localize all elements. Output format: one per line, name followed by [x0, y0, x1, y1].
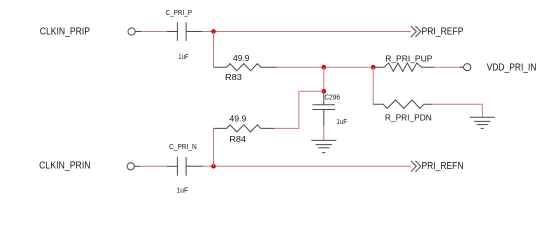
wire CLKIN_PRIN terminal to C_PRI_N	[140, 165, 167, 167]
wire C296 to ground	[323, 126, 325, 140]
capacitor C_PRI_N	[167, 157, 203, 176]
svg-text:R_PRI_PDN: R_PRI_PDN	[385, 112, 432, 122]
wire R_PRI_PUP branch down to R_PRI_PDN	[372, 67, 374, 104]
wire C_PRI_P to PRI_REFP	[203, 31, 411, 33]
junction node at x324 top	[322, 65, 327, 70]
terminal (port) for CLKIN_PRIN	[127, 163, 140, 170]
wire C_PRI_N to PRI_REFN	[203, 165, 411, 167]
svg-text:1uF: 1uF	[177, 186, 189, 195]
svg-text:PRI_REFP: PRI_REFP	[422, 26, 464, 37]
ground right	[470, 117, 495, 128]
wire down to R84	[298, 91, 300, 129]
wire R83 to R_PRI_PUP	[277, 66, 373, 68]
capacitor C296	[313, 91, 335, 126]
svg-text:1uF: 1uF	[336, 117, 347, 126]
svg-text:C_PRI_P: C_PRI_P	[166, 8, 193, 17]
capacitor C_PRI_P	[167, 22, 203, 41]
svg-text:CLKIN_PRIP: CLKIN_PRIP	[40, 26, 90, 37]
wire C296 node left	[299, 90, 324, 92]
junction node at bottom net	[211, 164, 216, 169]
svg-text:VDD_PRI_IN: VDD_PRI_IN	[487, 62, 537, 73]
svg-text:1uF: 1uF	[178, 52, 189, 61]
terminal (port) for CLKIN_PRIP	[128, 28, 141, 35]
resistor R_PRI_PUP	[373, 63, 434, 71]
junction node at top net	[211, 29, 216, 34]
svg-text:49.9: 49.9	[229, 114, 246, 124]
wire CLKIN_PRIP terminal to C_PRI_P	[141, 31, 167, 33]
wire junction down to R83	[213, 32, 215, 68]
svg-text:PRI_REFN: PRI_REFN	[422, 161, 464, 172]
wire junction up to R84	[213, 128, 215, 166]
svg-text:R_PRI_PUP: R_PRI_PUP	[385, 54, 432, 64]
svg-text:R83: R83	[225, 72, 242, 82]
resistor R84	[214, 125, 275, 132]
wire R_PRI_PUP to VDD_PRI_IN terminal	[434, 66, 463, 68]
wire R_PRI_PDN to ground	[433, 104, 483, 117]
ground under C296	[311, 140, 336, 152]
wire R84 right to riser	[275, 127, 299, 129]
resistor R83	[214, 64, 277, 71]
svg-text:49.9: 49.9	[233, 53, 250, 63]
terminal (port) VDD_PRI_IN	[460, 64, 471, 71]
resistor R_PRI_PDN	[373, 100, 433, 109]
off-page connector PRI_REFP	[411, 26, 421, 37]
wire x324 down to C296 node	[323, 67, 325, 91]
svg-text:C_PRI_N: C_PRI_N	[169, 142, 197, 151]
svg-text:C296: C296	[324, 93, 340, 102]
svg-text:CLKIN_PRIN: CLKIN_PRIN	[39, 161, 91, 172]
off-page connector PRI_REFN	[411, 161, 421, 172]
junction node at C296	[322, 89, 327, 94]
svg-text:R84: R84	[229, 134, 246, 144]
junction node at R_PRI_PUP branch	[371, 65, 376, 70]
